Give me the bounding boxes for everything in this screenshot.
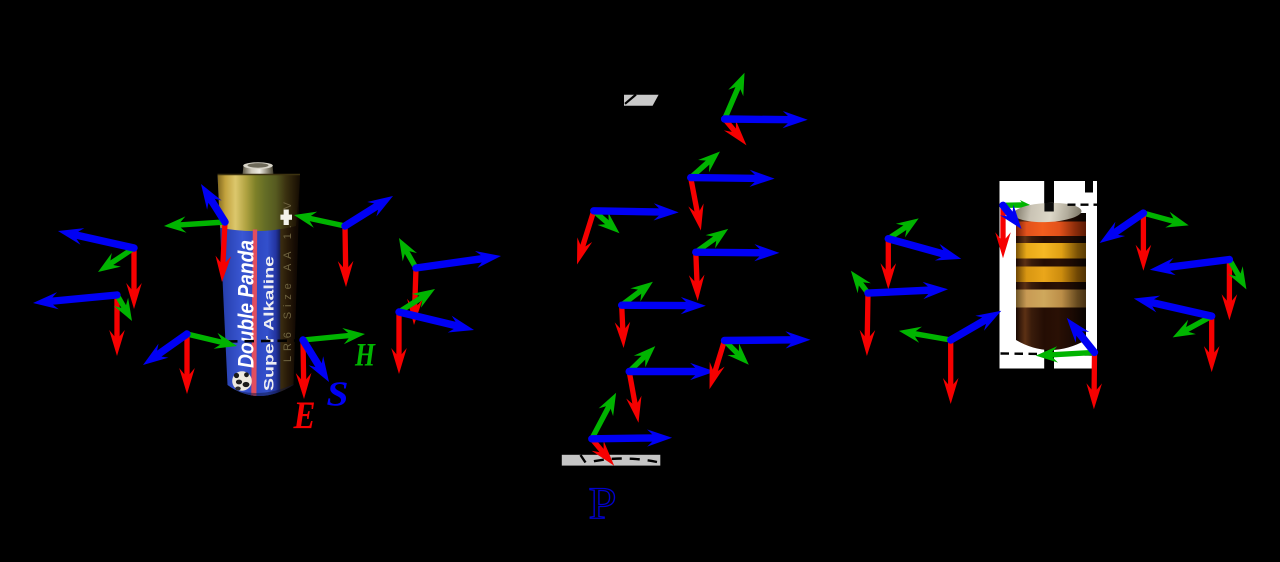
E-field arrow T7 [415,268,416,309]
battery gold cap [215,170,301,231]
Poynting S arrow T4 [345,204,380,226]
H-field arrow R3 [912,333,950,340]
field vector triad M5: E (red), H (green), S (blue) at node M5 [615,282,706,348]
field vector triad R7: E (red), H (green), S (blue) at node R7 [1150,258,1247,320]
E-field arrow M5 [622,305,623,332]
svg-text:E: E [293,394,316,437]
svg-text:H: H [354,338,376,374]
dashed circle line at resistor bottom [1001,354,1095,355]
dashed circle line at resistor top [1068,203,1099,205]
E-field arrow T1 [131,248,136,293]
H-field arrow M6 [629,356,645,372]
Poynting S arrow M7 [725,336,796,344]
Poynting S arrow T6 [303,340,321,369]
panda logo [232,371,252,391]
H-field arrow R8 [1185,316,1212,331]
E-field arrow R8 [1209,316,1214,356]
resistor band orange [1016,222,1086,237]
Poynting S arrow R5 [1077,330,1095,352]
E-field arrow R2 [865,293,871,340]
field vector triad R3: E (red), H (green), S (blue) at node R3 [899,311,1001,404]
dashed wire-circle arc over bottom gray plate [581,455,586,463]
E-field arrow M2 [691,178,698,215]
resistor wire (bottom lead) [1044,348,1054,369]
label red stripe [251,230,257,403]
H-field arrow R2 [859,282,868,294]
E-field arrow T6 [300,340,306,383]
battery blue label [215,170,303,410]
svg-text:S: S [327,375,349,414]
E-field arrow T5 [184,334,189,378]
H-field arrow R4 (behind resistor) [1003,202,1024,208]
Poynting S arrow R7 [1165,260,1229,268]
bottom shadow [217,382,298,412]
field vector triad R2: E (red), H (green), S (blue) at node R2 [851,271,948,356]
resistor band yellow 1 [1016,243,1086,259]
E-field arrow R3 [948,340,953,388]
white card behind resistor [1000,181,1098,369]
E-field arrow M4 [696,252,697,285]
H-field arrow R5 [1049,352,1094,355]
H-field arrow T5 [187,334,224,343]
Poynting S arrow M8 [592,434,657,442]
resistor band tan [1016,290,1086,308]
H-field arrow M4 [696,237,717,252]
Poynting S arrow M1 [725,115,793,123]
resistor top cap [1013,202,1082,224]
H-field arrow R7 [1229,260,1239,278]
field vector triad T7: E (red), H (green), S (blue) at node T7 [399,238,501,325]
field vector triad M2: E (red), H (green), S (blue) at node M2 [688,152,774,231]
Poynting S arrow T2 [48,295,117,302]
field vector triad R5: E (red), H (green), S (blue) at node R5 [1036,318,1102,409]
field vector triad M7: E (red), H (green), S (blue) at node M7 [710,331,811,389]
E-field arrow R6 [1141,213,1146,255]
Poynting S arrow T7 [416,258,486,268]
Poynting S arrow T5 [156,334,187,356]
E-field arrow T8 [396,312,401,358]
field vector triad T4: E (red), H (green), S (blue) at node T4 [294,196,393,287]
field vector triad R6: E (red), H (green), S (blue) at node R6 [1100,212,1189,271]
Poynting S arrow T1 [73,234,134,248]
Poynting S arrow M6 [629,368,699,375]
E-field arrow T4 [342,226,348,271]
resistor R body [1013,202,1086,350]
field vector triad M1: E (red), H (green), S (blue) at node M1 [724,73,808,146]
battery (AA cell) [215,162,303,412]
field vector triad R1: E (red), H (green), S (blue) at node R1 [881,218,962,289]
Poynting S arrow M5 [622,302,691,310]
resistor band yellow 2 [1016,267,1086,283]
E-field arrow M7 [714,341,724,374]
H-field arrow T6 [303,335,351,340]
H-field arrow T2 [117,295,125,309]
E-field arrow R1 [886,239,891,274]
E-field arrow T2 [114,295,119,340]
H-field arrow M7 [725,341,740,356]
field vector triad T5: E (red), H (green), S (blue) at node T5 [143,333,237,394]
field vector triad T2: E (red), H (green), S (blue) at node T2 [33,292,132,356]
field vector triad T8: E (red), H (green), S (blue) at node T8 [391,289,474,374]
field vector triad R4: E (red), H (green), S (blue) at node R4 [995,205,1021,258]
field vector triad M3: E (red), H (green), S (blue) at node M3 [577,203,679,264]
H-field arrow M1 [725,85,740,119]
field vector triad R8: E (red), H (green), S (blue) at node R8 [1134,296,1220,373]
H-field arrow M5 [622,290,642,305]
E-field arrow R4 [1000,205,1005,242]
wire stub into cap [1044,203,1053,212]
Poynting S arrow M2 [691,174,759,182]
field vector triad M4: E (red), H (green), S (blue) at node M4 [689,229,780,301]
plus sign on cap [280,210,292,226]
Poynting S arrow T3 [209,197,225,222]
E-field arrow M1 [725,119,737,133]
svg-text:Double Panda: Double Panda [234,240,259,368]
E-field arrow M6 [629,372,635,407]
field vector triad M8: E (red), H (green), S (blue) at node M8 [592,393,673,466]
E-field arrow T3 [223,222,225,266]
Poynting S arrow R1 [888,239,946,255]
field vector triad T6: E (red), H (green), S (blue) at node T6 [296,328,365,399]
resistor wire (top lead) [1044,181,1054,212]
H-field arrow R6 [1143,213,1175,222]
Poynting S arrow R6 [1112,213,1143,234]
Poynting S arrow M4 [696,248,764,256]
field vector triad T1: E (red), H (green), S (blue) at node T1 [58,228,142,309]
E-field arrow M3 [582,211,594,249]
Poynting S arrow R2 [868,290,933,293]
gray plate at top of wire figure [624,95,659,106]
E-field arrow R7 [1227,260,1232,305]
dashed circle line across battery label [228,341,297,342]
Poynting S arrow R4 [1003,205,1012,217]
H-field arrow T4 [307,218,345,226]
H-field arrow M2 [691,161,710,178]
battery top rim line [218,174,301,176]
Poynting S arrow R3 [951,319,988,341]
field vector triad M6: E (red), H (green), S (blue) at node M6 [626,346,715,423]
Poynting S arrow R8 [1149,302,1212,316]
H-field arrow T3 [178,222,225,225]
field vector triad T3: E (red), H (green), S (blue) at node T3 [164,184,231,282]
E-field arrow R5 [1091,352,1097,393]
H-field arrow M8 [592,405,610,439]
svg-text:Super Alkaline: Super Alkaline [262,255,277,391]
H-field arrow T1 [109,248,134,264]
battery positive nub [243,163,274,175]
E-field arrow M8 [592,439,604,454]
H-field arrow T7 [406,250,416,268]
H-field arrow R1 [888,226,907,239]
Poynting S arrow M3 [594,211,663,212]
H-field arrow M3 [594,211,609,224]
gray plate at bottom of wire figure [562,455,661,466]
black notch on card top edge [1085,181,1093,193]
Poynting S arrow T8 [399,312,459,326]
svg-text:P: P [589,478,617,529]
H-field arrow T8 [399,296,424,312]
